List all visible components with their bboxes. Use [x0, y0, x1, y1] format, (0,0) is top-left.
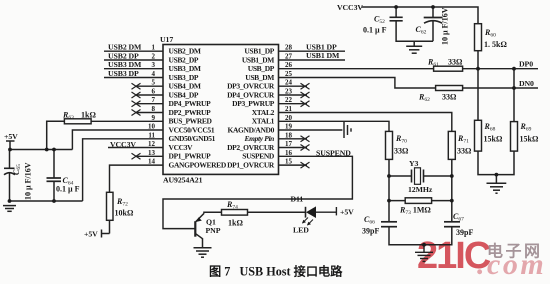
svg-text:1kΩ: 1kΩ — [228, 219, 243, 228]
svg-text:LED: LED — [293, 226, 309, 235]
junction crystal row left — [387, 174, 391, 178]
svg-text:USB_DM: USB_DM — [245, 73, 274, 82]
svg-text:+5V: +5V — [4, 132, 18, 141]
svg-text:VCC50/VCC51: VCC50/VCC51 — [169, 125, 215, 134]
LED arrows — [302, 218, 313, 226]
right pin numbers — [285, 44, 293, 166]
emitter with arrow (PNP) — [196, 213, 204, 221]
wire pin11 GND50 — [83, 139, 163, 201]
svg-text:39pF: 39pF — [362, 227, 379, 236]
svg-text:USB1 DM: USB1 DM — [306, 51, 340, 60]
wire C65 branch down — [9, 150, 11, 169]
svg-text:13: 13 — [148, 149, 156, 157]
junction crystal row right — [450, 174, 454, 178]
capacitor C64 — [47, 150, 62, 202]
svg-text:1. 5kΩ: 1. 5kΩ — [484, 40, 507, 49]
wire pin22 stub — [279, 103, 308, 105]
wire pin3 USB3 DM — [104, 68, 163, 70]
no-connect X pin13 — [132, 153, 141, 159]
capacitor C52 — [390, 7, 434, 41]
svg-text:+5V: +5V — [84, 230, 98, 239]
svg-text:5: 5 — [152, 79, 156, 87]
wire R74 to LED — [248, 211, 306, 213]
svg-text:15kΩ: 15kΩ — [484, 135, 503, 144]
svg-text:0.1 µ F: 0.1 µ F — [363, 26, 387, 35]
svg-text:Y3: Y3 — [409, 159, 419, 168]
junction crystal ground rail — [422, 243, 426, 247]
svg-text:U17: U17 — [160, 35, 173, 44]
no-connect X pin22 — [301, 101, 310, 107]
wire pin25 step to DN0 line — [279, 78, 436, 89]
wire pin20 XTAL1 to R70 — [279, 121, 390, 131]
svg-text:USB2_DM: USB2_DM — [169, 47, 201, 56]
svg-text:USB2 DM: USB2 DM — [108, 43, 142, 52]
junction C52/VCC3V rail — [394, 5, 398, 9]
wire R60 to DP0 — [477, 51, 479, 69]
svg-text:VCC3V: VCC3V — [169, 143, 194, 152]
junction C65 bottom on ground rail — [8, 199, 12, 203]
ground below Q1 — [194, 248, 212, 257]
resistor R74 — [222, 210, 248, 216]
wire pin15 stub — [279, 164, 308, 166]
junction R73 row right — [450, 199, 454, 203]
no-connect X pin6 — [132, 92, 141, 98]
IC U17 internal pin name rows — [169, 47, 275, 170]
svg-text:12MHz: 12MHz — [408, 185, 433, 194]
wire pin8 stub — [136, 112, 163, 114]
no-connect X pin23 — [301, 92, 310, 98]
resistor R60 — [475, 24, 482, 51]
svg-text:D11: D11 — [291, 195, 304, 204]
resistor R61 — [434, 66, 463, 71]
svg-text:3: 3 — [152, 61, 156, 69]
svg-text:图 7 USB Host 接口电路: 图 7 USB Host 接口电路 — [209, 264, 343, 279]
resistor R63 — [47, 121, 65, 149]
svg-text:2: 2 — [152, 53, 156, 61]
svg-text:0.1 µ F: 0.1 µ F — [56, 185, 80, 194]
svg-text:GANGPOWERED: GANGPOWERED — [169, 160, 227, 169]
no-connect X pin24 — [301, 83, 310, 168]
crystal circuit wires — [389, 159, 452, 244]
wire pin21 XTAL2 to R71 — [279, 113, 452, 132]
svg-text:33Ω: 33Ω — [394, 147, 409, 156]
svg-text:R73 1MΩ: R73 1MΩ — [399, 206, 431, 217]
svg-text:+5V: +5V — [340, 208, 354, 217]
no-connect X pin5 — [132, 83, 141, 159]
wire pin23 stub — [279, 94, 308, 96]
svg-text:USB2 DP: USB2 DP — [108, 52, 139, 61]
junction R60/R68 on DP0 — [476, 67, 480, 71]
wire DP0 junction vertical to R69 — [478, 69, 514, 175]
watermark 21IC — [417, 235, 546, 281]
wire pin5 stub — [136, 85, 163, 87]
svg-text:33Ω: 33Ω — [442, 93, 457, 102]
svg-text:USB1 DP: USB1 DP — [306, 42, 337, 51]
junction C64 bottom on ground rail — [52, 199, 56, 203]
svg-text:14: 14 — [148, 158, 156, 166]
diode D11 LED — [306, 206, 337, 218]
svg-text:4: 4 — [152, 70, 156, 78]
no-connect X pin7 — [132, 101, 141, 107]
wire pin19 AGND — [279, 129, 343, 131]
wire pin9 from R63 — [91, 120, 163, 122]
svg-text:6: 6 — [152, 88, 156, 96]
junction C62/VCC3V rail — [431, 5, 435, 9]
resistor R62 — [436, 86, 463, 91]
wire R71 bottom leg down — [451, 159, 453, 221]
wire R70 bottom leg down — [388, 159, 390, 221]
svg-text:SUSPEND: SUSPEND — [242, 152, 275, 161]
svg-text:33Ω: 33Ω — [448, 58, 463, 67]
junction ground rail R68/R69 — [495, 173, 499, 177]
ground (sideways) on pin19 — [344, 122, 351, 138]
wire R72 to +5V — [102, 220, 110, 237]
svg-text:KAGND/AND0: KAGND/AND0 — [228, 125, 275, 134]
junction R63 leg on node rail — [45, 148, 49, 152]
wire pin18 stub — [279, 138, 308, 140]
svg-text:11: 11 — [148, 131, 155, 139]
svg-text:USB3_DP: USB3_DP — [169, 73, 199, 82]
svg-text:10 µ F/16V: 10 µ F/16V — [441, 7, 450, 45]
svg-text:DP1_PWRUP: DP1_PWRUP — [169, 152, 212, 161]
no-connect X pin18 — [301, 136, 310, 142]
capacitor C67 — [444, 222, 460, 227]
svg-text:USB1_DP: USB1_DP — [244, 47, 274, 56]
wire pin27 USB1 DM stub — [279, 59, 346, 61]
svg-text:DP4_PWRUP: DP4_PWRUP — [169, 99, 212, 108]
collector — [196, 234, 203, 239]
svg-text:Empty Pin: Empty Pin — [243, 134, 274, 143]
resistor R72 — [107, 192, 114, 220]
wire pin28 USB1 DP stub — [279, 50, 346, 52]
wire pin1 USB2 DM — [104, 50, 163, 52]
ground below R68/R69 — [487, 175, 507, 194]
svg-text:15kΩ: 15kΩ — [520, 135, 539, 144]
capacitor C65 (polarized) — [4, 168, 15, 175]
resistor R69 — [511, 122, 518, 152]
svg-text:10 µ F/16V: 10 µ F/16V — [24, 162, 33, 200]
resistor R73 — [405, 198, 431, 204]
ground below C65 — [3, 206, 16, 212]
capacitor C62 (polarized) — [424, 7, 443, 41]
svg-text:39pF: 39pF — [456, 228, 473, 237]
no-connect X pin15 — [301, 162, 310, 168]
svg-text:DP0: DP0 — [519, 60, 533, 69]
wire crystal row right — [424, 175, 452, 177]
wire pin7 stub — [136, 103, 163, 105]
junction R69 branch on DP0 — [512, 67, 516, 71]
wire pin24 stub — [279, 85, 308, 87]
svg-text:1kΩ: 1kΩ — [81, 111, 96, 120]
wire pin12 VCC3V stub — [108, 147, 163, 149]
svg-text:USB3_DM: USB3_DM — [169, 64, 201, 73]
svg-text:1: 1 — [152, 44, 156, 52]
svg-text:AU9254A21: AU9254A21 — [163, 176, 203, 185]
transistor Q1 — [195, 212, 221, 248]
crystal Y3 — [412, 168, 424, 185]
op IC U17 box — [163, 45, 279, 175]
svg-text:USB3 DM: USB3 DM — [108, 60, 142, 69]
wire pin2 USB2 DP — [104, 59, 163, 61]
ground rail bottom left — [10, 200, 83, 202]
wire C66 bottom / C67 bottom to gnd rail — [389, 228, 452, 245]
svg-text:USB4_DM: USB4_DM — [169, 82, 201, 91]
svg-text:VCC3V: VCC3V — [337, 3, 363, 12]
junction R69 branch on DN0 — [512, 86, 516, 90]
wire pin10 VCC50 — [72, 130, 163, 150]
junction +5V arrow on node rail — [8, 148, 12, 152]
wire pin16 SUSPEND to Q1 base — [163, 156, 352, 228]
wire pin14 GANGPOWERED to R72 — [110, 165, 164, 192]
wire VCC3V rail — [362, 7, 479, 24]
svg-text:DP4_OVRCUR: DP4_OVRCUR — [227, 90, 275, 99]
wire pin6 stub — [136, 94, 163, 96]
svg-text:DP3_OVRCUR: DP3_OVRCUR — [227, 82, 275, 91]
wire R68 leg from DP0 — [477, 69, 479, 121]
+5V stub arrow top left — [9, 142, 11, 150]
wire pin17 stub — [279, 147, 308, 149]
svg-text:USB3 DP: USB3 DP — [108, 69, 139, 78]
svg-text:9: 9 — [152, 114, 156, 122]
svg-text:XTAL1: XTAL1 — [252, 117, 275, 126]
svg-text:DN0: DN0 — [519, 79, 534, 88]
svg-text:GND50/GND51: GND50/GND51 — [169, 134, 216, 143]
junction R73 row left — [387, 199, 391, 203]
svg-text:DP1_OVRCUR: DP1_OVRCUR — [227, 160, 275, 169]
wire pin13 stub — [136, 155, 163, 157]
wire pin4 USB3 DP — [104, 77, 163, 79]
svg-text:VCC3V: VCC3V — [110, 140, 136, 149]
svg-text:DP2_PWRUP: DP2_PWRUP — [169, 108, 212, 117]
no-connect X pin17 — [301, 145, 310, 151]
wire crystal row left — [389, 175, 412, 177]
resistor R71 — [448, 131, 455, 159]
wire R73 row — [389, 200, 452, 202]
resistor R68 — [475, 120, 482, 151]
svg-text:USB_DP: USB_DP — [248, 64, 275, 73]
svg-text:BUS_PWRED: BUS_PWRED — [169, 117, 213, 126]
svg-text:USB1_DM: USB1_DM — [242, 55, 274, 64]
ground below C52/C62 — [406, 41, 422, 53]
left pin numbers — [148, 44, 156, 166]
no-connect X pin8 — [132, 110, 141, 116]
capacitor C66 — [381, 222, 397, 227]
svg-text:12: 12 — [148, 140, 156, 148]
svg-text:10kΩ: 10kΩ — [115, 209, 134, 218]
svg-text:SUSPEND: SUSPEND — [316, 148, 351, 157]
svg-text:10: 10 — [148, 123, 156, 131]
wire pin26 to DP0 — [279, 68, 434, 70]
svg-text:DP2_OVRCUR: DP2_OVRCUR — [227, 143, 275, 152]
resistor R70 — [386, 131, 393, 159]
svg-text:.com: .com — [477, 248, 546, 281]
left pin wires 1-4 with net labels — [72, 51, 163, 201]
svg-text:USB4_DP: USB4_DP — [169, 90, 199, 99]
svg-text:33Ω: 33Ω — [457, 147, 472, 156]
left node rail — [6, 141, 83, 201]
junction C64 top on node rail — [52, 148, 56, 152]
svg-text:7: 7 — [152, 96, 156, 104]
svg-text:USB2_DP: USB2_DP — [169, 55, 199, 64]
svg-text:DP3_PWRUP: DP3_PWRUP — [232, 99, 275, 108]
svg-text:8: 8 — [152, 105, 156, 113]
svg-text:XTAL2: XTAL2 — [252, 108, 275, 117]
ground below crystal — [415, 245, 433, 262]
wire R68/R69 bottoms to ground — [478, 151, 514, 175]
svg-text:PNP: PNP — [206, 226, 221, 235]
